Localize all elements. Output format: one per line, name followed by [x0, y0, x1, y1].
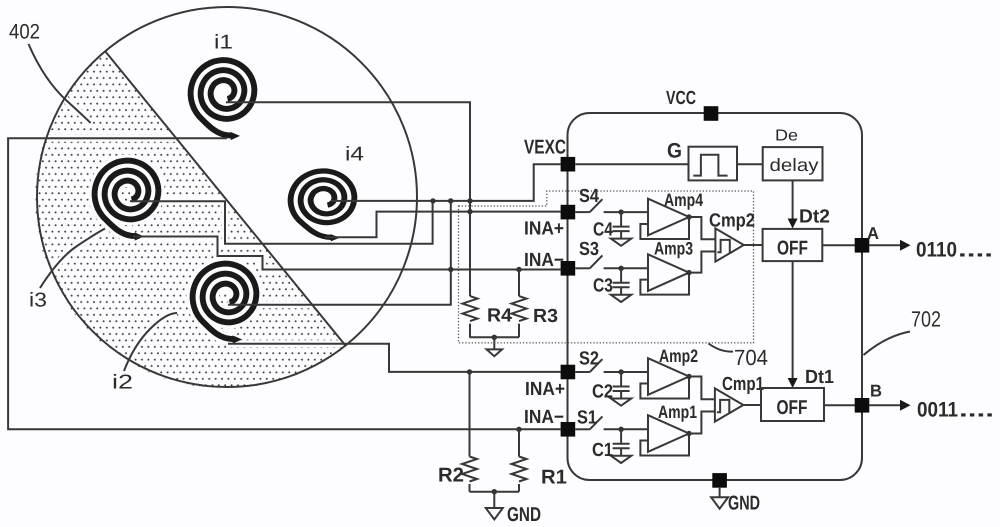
VCC terminal — [704, 106, 719, 121]
switch S1 — [561, 422, 576, 437]
wire i3 centre step to VEXC net — [130, 201, 433, 244]
delay block De — [763, 147, 823, 180]
resistor R2 — [462, 372, 477, 492]
svg-text:B: B — [870, 382, 882, 401]
svg-text:C2: C2 — [592, 382, 613, 403]
wire i1 centre to INA+ node — [226, 102, 470, 296]
svg-text:delay: delay — [770, 155, 819, 175]
svg-text:0011....: 0011.... — [917, 399, 994, 422]
inductor coil i1 — [191, 60, 255, 140]
svg-text:702: 702 — [911, 307, 941, 332]
svg-text:Cmp1: Cmp1 — [722, 374, 764, 395]
svg-text:i2: i2 — [112, 372, 133, 394]
VEXC terminal — [561, 157, 576, 172]
wire R4R3 common — [470, 336, 520, 338]
svg-text:OFF: OFF — [777, 238, 808, 260]
dashed box 704 — [459, 191, 754, 343]
svg-text:Cmp2: Cmp2 — [709, 211, 755, 232]
sensor target circle 402 — [37, 7, 417, 387]
svg-text:INA+: INA+ — [524, 219, 564, 240]
switch S3 — [561, 261, 576, 276]
svg-text:GND: GND — [728, 493, 760, 515]
terminal B — [855, 398, 870, 413]
resistor R3 — [512, 270, 527, 338]
svg-text:C4: C4 — [593, 220, 613, 241]
junction dots VEXC bus — [430, 198, 435, 203]
wire i1 outer left loop to S1/INA- — [8, 138, 561, 429]
svg-text:VCC: VCC — [666, 88, 696, 109]
junction dot INA+ lower — [467, 369, 472, 374]
ground R4R3 — [493, 337, 495, 349]
off-delay block Dt2 — [763, 229, 823, 261]
svg-text:Dt1: Dt1 — [805, 367, 834, 388]
svg-text:R3: R3 — [533, 306, 558, 327]
svg-text:Amp1: Amp1 — [658, 402, 697, 422]
white halos — [226, 99, 470, 106]
capacitor C4 — [620, 212, 622, 227]
wire i4 outer to S4/INA+ — [325, 212, 561, 238]
svg-text:i1: i1 — [214, 32, 233, 54]
svg-text:INA+: INA+ — [525, 379, 565, 400]
wire R2R1 common — [470, 491, 520, 493]
svg-text:OFF: OFF — [777, 397, 808, 419]
leader i3 — [40, 229, 105, 289]
wire Amp3 to Cmp2 — [689, 252, 715, 273]
wire i2 outer to S2/INA+ — [228, 344, 561, 372]
resistor R1 — [512, 429, 527, 491]
capacitor C1 — [620, 429, 622, 444]
capacitor C2 — [620, 372, 622, 387]
svg-text:De: De — [775, 128, 798, 145]
op-amp Amp3 — [648, 254, 689, 291]
svg-text:C1: C1 — [592, 440, 613, 461]
wire Amp2 to Cmp1 — [689, 377, 715, 400]
wire delay to OFF Dt2 — [792, 180, 794, 219]
wire VEXC to G — [575, 163, 688, 165]
switch S4 — [561, 205, 576, 220]
op-amp Amp4 — [648, 199, 689, 236]
svg-text:Dt2: Dt2 — [799, 207, 830, 228]
svg-text:INA−: INA− — [524, 407, 564, 428]
wire OFF to A — [822, 244, 901, 246]
off-delay block Dt1 — [761, 388, 824, 421]
svg-text:R4: R4 — [487, 306, 512, 327]
svg-text:R1: R1 — [541, 467, 567, 489]
wire Cmp2 to OFF — [744, 244, 763, 246]
svg-text:S2: S2 — [579, 349, 599, 370]
pulse generator G — [689, 147, 738, 181]
svg-text:Amp4: Amp4 — [664, 190, 703, 210]
svg-text:R2: R2 — [438, 465, 464, 487]
stipple fill of sensor target 402 — [35, 51, 345, 388]
svg-text:A: A — [867, 224, 879, 243]
inductor coil i3 — [95, 161, 159, 241]
chip block 702 — [568, 113, 863, 480]
diagonal divider line — [105, 51, 346, 346]
svg-text:S1: S1 — [577, 408, 597, 429]
wire Dt2 to OFF Dt1 — [792, 261, 794, 378]
wire i3 outer staircase to S3/INA- — [133, 237, 561, 270]
comparator Cmp2 — [715, 228, 743, 261]
resistor R4 — [463, 296, 478, 337]
comparator Cmp1 — [715, 388, 743, 421]
wire Amp4 to Cmp2 — [689, 217, 715, 239]
switch S2 — [561, 365, 576, 380]
svg-text:0110....: 0110.... — [916, 239, 993, 262]
GND terminal — [712, 473, 727, 488]
leader 402 — [29, 44, 91, 123]
svg-text:i4: i4 — [345, 144, 364, 166]
svg-text:INA−: INA− — [524, 250, 564, 271]
wire Amp1 to Cmp1 — [689, 412, 715, 434]
junction dots INA- upper — [448, 267, 453, 272]
capacitor C3 — [620, 268, 622, 283]
wire Cmp1 to OFF — [743, 404, 761, 406]
svg-text:GND: GND — [507, 504, 541, 526]
wire i4 centre / VEXC bus — [331, 164, 561, 201]
wire G to delay — [737, 163, 763, 165]
svg-text:VEXC: VEXC — [524, 137, 566, 159]
svg-text:Amp2: Amp2 — [659, 346, 698, 366]
terminal A — [855, 238, 870, 253]
svg-text:704: 704 — [734, 345, 768, 370]
inductor coil i2 — [193, 264, 257, 344]
junction dot INA+ upper — [467, 209, 472, 214]
junction dot INA- lower — [516, 427, 521, 432]
svg-text:S3: S3 — [579, 239, 599, 260]
ground R2R1 — [493, 492, 495, 508]
op-amp Amp2 — [648, 358, 689, 395]
inductor coil i4 — [291, 171, 355, 241]
svg-text:Amp3: Amp3 — [654, 239, 693, 259]
wire OFF to B — [824, 404, 901, 406]
svg-text:402: 402 — [9, 21, 40, 44]
leader i2 — [124, 313, 177, 371]
op-amp Amp1 — [648, 415, 689, 452]
wire i2 centre riser — [228, 201, 451, 305]
svg-text:i3: i3 — [29, 290, 47, 312]
svg-text:S4: S4 — [579, 186, 599, 207]
svg-text:C3: C3 — [593, 276, 613, 297]
svg-text:G: G — [667, 140, 682, 163]
